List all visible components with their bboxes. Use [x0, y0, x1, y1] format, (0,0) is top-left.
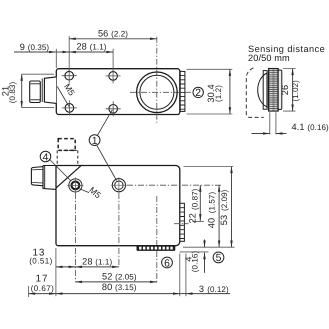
- lens dome: [258, 73, 267, 107]
- ext line block bottom right: [180, 251, 209, 253]
- phantom housing outline (dashed): [246, 68, 263, 118]
- dashed clamp upper rect: [58, 139, 75, 151]
- svg-text:56 (2.2): 56 (2.2): [98, 29, 128, 39]
- side view chamfer edge line: [56, 166, 81, 189]
- svg-text:22: 22: [187, 213, 197, 223]
- dimension 9 (0.35): [14, 51, 56, 53]
- mounting hole 2 (side view): [111, 177, 127, 193]
- svg-text:(1.02): (1.02): [291, 80, 300, 102]
- top view body: [56, 69, 180, 115]
- svg-text:28 (1.1): 28 (1.1): [76, 42, 106, 52]
- dimension 13 (0.51): [56, 266, 76, 268]
- mounting hole bottom-right (top view): [106, 101, 121, 116]
- dimension 26 (1.02): [283, 69, 296, 112]
- svg-text:(0.83): (0.83): [8, 82, 17, 104]
- ext line body-left above: [55, 49, 57, 68]
- ext lines strip right: [193, 220, 205, 222]
- top view connector boot: [44, 77, 56, 104]
- label 4 leader: [49, 159, 71, 181]
- lens axis centerline (side view): [156, 196, 158, 282]
- svg-text:80 (3.15): 80 (3.15): [102, 282, 137, 292]
- dimension 40 (1.57): [218, 185, 220, 247]
- dimension 56 (2.2): [69, 38, 157, 40]
- label 1 circled: [89, 135, 100, 146]
- svg-text:(1.2): (1.2): [214, 85, 223, 102]
- svg-text:(0.51): (0.51): [29, 256, 53, 265]
- side knurled strip (right edge of side view): [180, 203, 185, 241]
- svg-text:9 (0.35): 9 (0.35): [20, 42, 50, 52]
- svg-text:2: 2: [195, 88, 201, 99]
- ext line body right bottom: [179, 254, 181, 297]
- lens rim: [278, 70, 282, 110]
- side view body: [56, 166, 180, 246]
- side view connector boot: [43, 166, 56, 190]
- dimension 4.1 (0.16): [270, 112, 276, 134]
- svg-text:26: 26: [280, 85, 290, 95]
- mounting hole 1 (side view, M5): [67, 177, 83, 193]
- top view knurled strip (right edge): [180, 71, 185, 111]
- hole2 centerline horizontal: [127, 184, 223, 186]
- dimension 4 (0.16): [204, 240, 206, 248]
- dimension 80 (3.15): [56, 293, 180, 295]
- top view connector step: [42, 78, 44, 102]
- svg-text:52 (2.05): 52 (2.05): [102, 271, 137, 281]
- ext line strip right bottom: [185, 254, 187, 297]
- ext line hole col 2 above: [112, 49, 114, 72]
- mounting hole bottom-left (top view): [62, 100, 77, 115]
- dashed clamp lower outline: [57, 150, 78, 165]
- label 4 circled: [40, 151, 51, 162]
- hole2 centerline vertical: [118, 193, 120, 267]
- ext line body top right: [184, 166, 234, 168]
- side strip centerline: [174, 223, 189, 225]
- M5 leader (side view): [80, 189, 90, 193]
- top view connector plug: [30, 81, 41, 103]
- svg-text:4.1 (0.16): 4.1 (0.16): [292, 122, 329, 132]
- dimension 17 (0.67): [29, 293, 56, 295]
- dimension 30.4 (1.2) right: [187, 69, 233, 114]
- svg-text:5: 5: [216, 253, 222, 264]
- M5 leader (top view): [57, 87, 69, 107]
- lens centerline vertical (dash-dot): [156, 37, 158, 123]
- svg-text:(0.67): (0.67): [31, 284, 55, 293]
- bottom connector block: [137, 245, 176, 251]
- side view connector step: [44, 166, 46, 188]
- lens inner circle: [140, 75, 174, 109]
- svg-text:3 (0.12): 3 (0.12): [199, 284, 229, 294]
- mounting hole top-right (top view): [106, 68, 121, 83]
- label 6 circled: [162, 257, 173, 268]
- svg-text:53: 53: [219, 215, 229, 225]
- svg-text:(1.57): (1.57): [207, 192, 216, 214]
- svg-text:6: 6: [164, 258, 170, 269]
- svg-text:(2.09): (2.09): [220, 189, 229, 211]
- dimension 21 (0.83) left: [22, 74, 54, 107]
- lens outer circle: [137, 72, 178, 113]
- lens base cylinder: [263, 71, 267, 110]
- svg-text:(0.16): (0.16): [191, 251, 200, 273]
- dimension 22 (0.87): [199, 185, 201, 221]
- side view connector plug: [31, 167, 43, 186]
- ext line connector tip: [28, 286, 30, 297]
- label 2 circled: [193, 87, 203, 97]
- svg-text:(0.87): (0.87): [191, 188, 200, 210]
- ext line hole col 1 above: [68, 36, 70, 71]
- dimension 28 (1.1) bottom: [75, 266, 119, 268]
- lens centerline horizontal (dash-dot): [130, 91, 193, 93]
- label 1 leader down to side view hole: [97, 145, 117, 181]
- hole1 centerline vertical: [74, 193, 76, 282]
- ext line body left bottom: [55, 248, 57, 296]
- svg-text:28 (1.1): 28 (1.1): [82, 256, 112, 266]
- dimension 53 (2.09): [231, 167, 233, 248]
- dimension 3 (0.12): [180, 293, 186, 295]
- svg-text:40: 40: [206, 218, 216, 228]
- lens barrel (knurled): [269, 69, 279, 112]
- dimension 52 (2.05): [75, 281, 156, 283]
- svg-text:4: 4: [43, 152, 49, 163]
- label 5 circled: [213, 252, 224, 263]
- ext line body bottom right: [183, 246, 235, 248]
- label 1 leader up to top view hole: [97, 110, 112, 136]
- dimension 28 (1.1): [69, 51, 113, 53]
- mounting hole top-left (top view): [62, 68, 77, 83]
- svg-text:20/50 mm: 20/50 mm: [248, 53, 290, 63]
